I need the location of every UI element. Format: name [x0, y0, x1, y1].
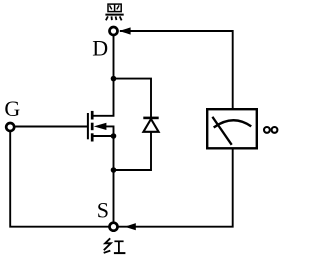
transistor Q1: body channel bar [91, 123, 94, 131]
label 黑 (black probe) [105, 4, 123, 20]
node: source-diode junction [111, 167, 117, 173]
meter M1 needle [212, 117, 231, 145]
svg-text:G: G [4, 96, 20, 121]
terminal D (open circle, black probe) [110, 27, 118, 35]
wire: diode bottom to source junction [114, 132, 152, 171]
meter M1 (multimeter) box [207, 109, 257, 148]
transistor Q1 N-MOSFET: gate electrode bar [87, 113, 89, 139]
transistor Q1: body arrow (points to gate) [94, 123, 107, 130]
wire: drain line D to MOSFET [93, 36, 114, 116]
wire: gate wire G to MOSFET gate [16, 126, 88, 128]
wire: drain junction to diode top [114, 79, 152, 117]
terminal G (open circle) [6, 123, 14, 131]
wire: D terminal to meter (top) [120, 31, 233, 110]
label 红 (red probe) [104, 238, 126, 253]
transistor Q1: drain channel bar [91, 111, 94, 120]
wire: body to source tie [106, 126, 114, 136]
wire: S terminal to meter (bottom) [118, 148, 233, 227]
transistor Q1: source channel bar [91, 133, 94, 141]
node: body-source tie junction [111, 133, 117, 139]
arrowhead at D terminal [119, 27, 131, 34]
arrowhead at S terminal [125, 223, 136, 230]
svg-text:S: S [97, 198, 109, 223]
meter M1 scale arc [214, 120, 252, 127]
wire: source line down to S terminal [113, 136, 115, 222]
label infinity (meter reading) [264, 127, 277, 133]
wire: source bar to source line [93, 135, 114, 137]
diode D1 (body diode) [143, 118, 158, 132]
svg-text:D: D [92, 36, 108, 61]
wire: G loop down-left to bottom wire to S terminal [10, 132, 109, 227]
node: drain-diode junction [111, 76, 117, 82]
terminal S (open circle, red probe) [110, 223, 118, 231]
